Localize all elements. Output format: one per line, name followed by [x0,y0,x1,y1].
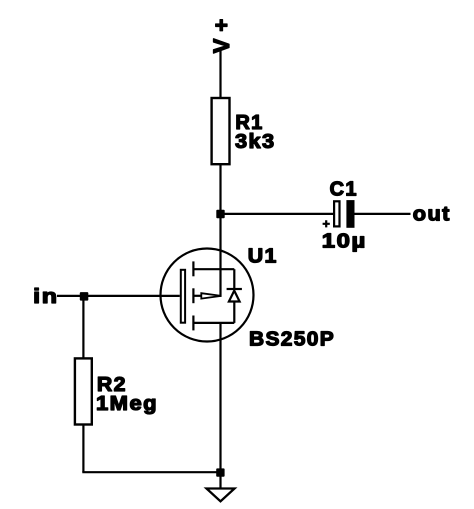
resistor R1 [212,98,230,164]
junction node at ground [216,468,224,476]
wire U1 drain to ground rail [219,323,221,488]
transistor U1 body diode triangle [229,291,240,302]
capacitor C1 positive plate [334,201,339,226]
transistor U1 channel top segment [192,261,194,276]
transistor U1 channel bottom segment [192,316,194,331]
svg-text:out: out [413,204,451,226]
svg-text:3k3: 3k3 [235,131,276,153]
transistor U1 body lead stub [193,295,201,297]
transistor U1 gate bar [181,270,185,323]
transistor U1 body diode branch lower wire [233,302,235,323]
transistor U1 drain lead (bottom) [193,322,234,324]
junction node at in/R2 [80,292,89,301]
svg-text:C1: C1 [330,179,358,201]
wire R1 to U1 drain rail [219,164,221,297]
svg-text:V+: V+ [209,12,234,54]
svg-text:in: in [33,286,59,308]
capacitor C1 negative plate [346,200,354,228]
wire C1 to out [355,213,411,215]
svg-text:1Meg: 1Meg [96,393,158,415]
transistor U1 body diode cathode bar [227,288,242,290]
wire R2 to bottom rail [82,425,84,473]
wire node to C1 [221,213,334,215]
transistor U1 channel middle segment [192,288,194,303]
wire in to gate [57,295,180,297]
transistor U1 body diode branch upper wire [233,269,235,289]
transistor U1 source lead (top) [193,268,234,270]
wire in junction to R2 [82,296,84,358]
svg-text:10µ: 10µ [322,231,367,253]
ground symbol [207,489,235,502]
capacitor C1 plus sign [323,220,330,227]
svg-text:U1: U1 [248,245,278,267]
transistor U1 body arrow [201,293,221,298]
svg-text:BS250P: BS250P [249,328,335,350]
junction node at C1 tap [216,210,224,218]
resistor R2 [75,358,92,424]
wire V+ to R1 [219,49,221,98]
wire bottom rail to ground junction [82,471,220,473]
transistor U1 body circle [161,249,254,342]
